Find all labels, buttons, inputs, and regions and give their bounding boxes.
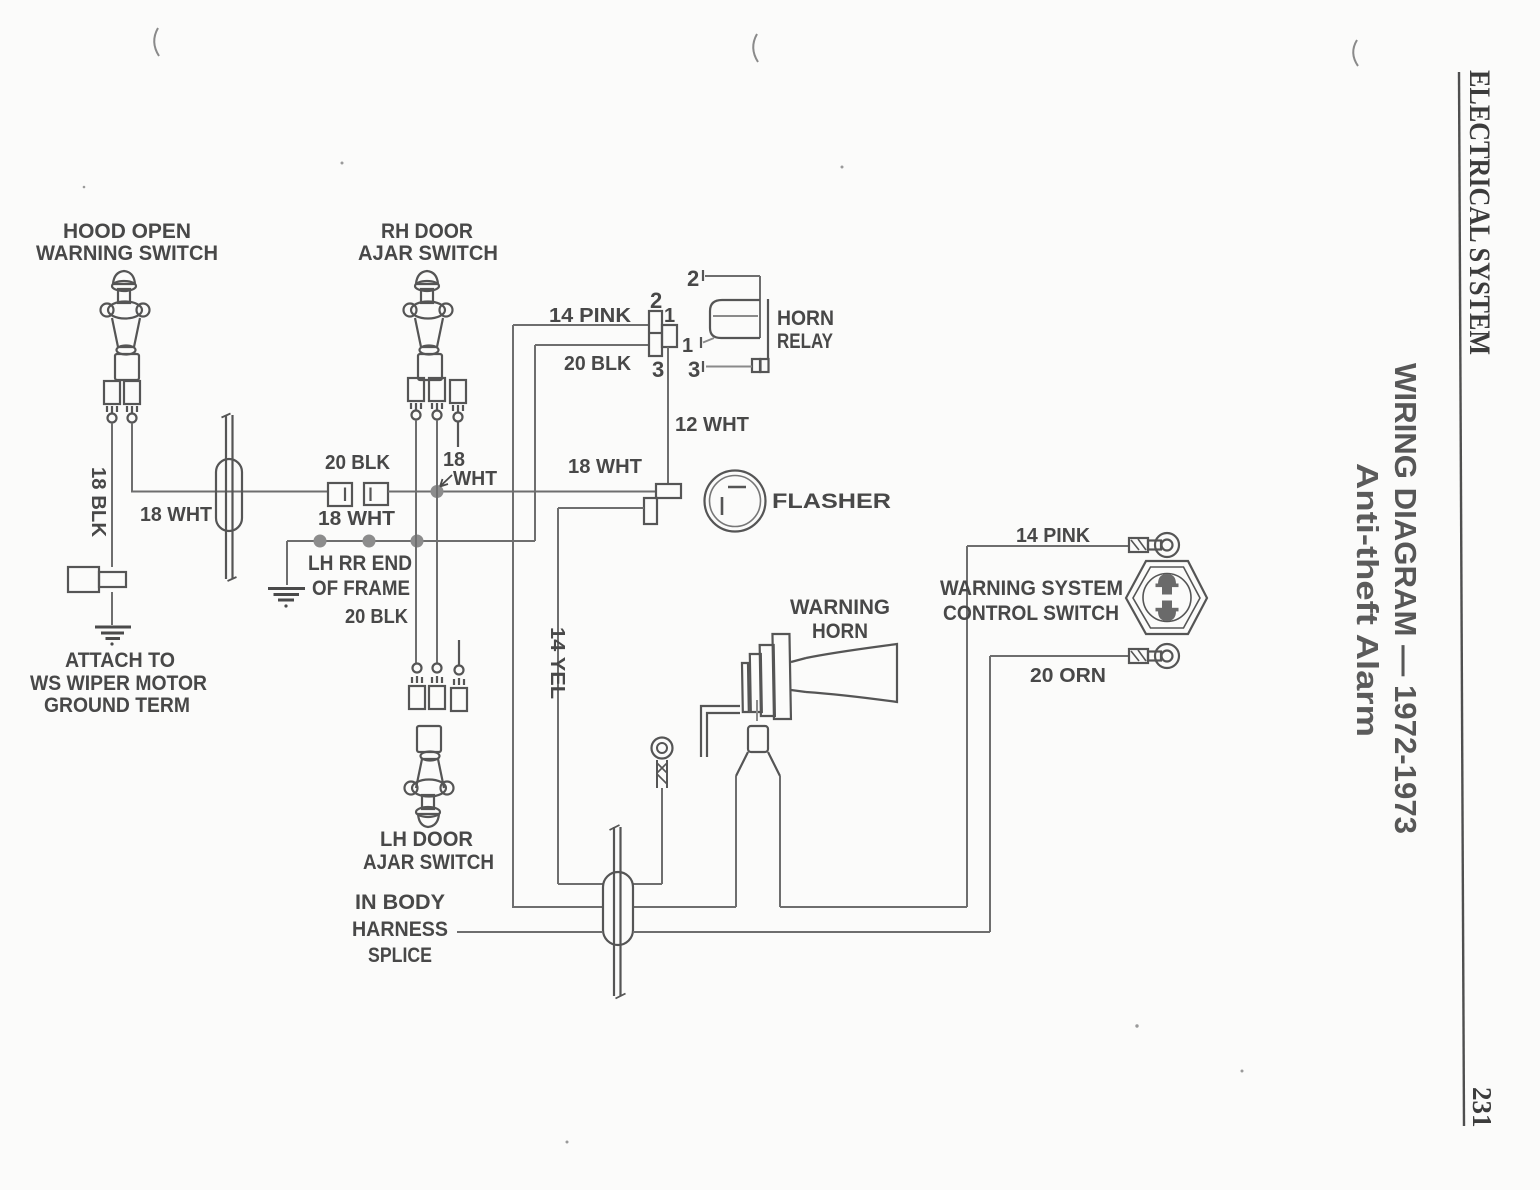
svg-text:20 BLK: 20 BLK: [564, 353, 632, 375]
wire 18 BLK hood switch to wiper ground: [111, 423, 113, 567]
scan artifact parenthesis 1: [154, 28, 159, 56]
terminal connector RH door pin 3 (18 WHT stub): [450, 380, 466, 447]
svg-text:18 WHT: 18 WHT: [318, 508, 395, 530]
svg-text:SPLICE: SPLICE: [368, 944, 432, 967]
svg-text:WARNING SYSTEM: WARNING SYSTEM: [940, 577, 1123, 600]
terminal connector LH door pin 3 with stub: [451, 640, 467, 711]
svg-text:AJAR SWITCH: AJAR SWITCH: [358, 242, 498, 265]
svg-text:HARNESS: HARNESS: [352, 918, 448, 941]
RH door ajar switch S2: [404, 271, 453, 380]
junction node 18 WHT: [431, 485, 444, 498]
svg-text:14 PINK: 14 PINK: [549, 305, 632, 327]
bullet connector half A (20 BLK): [328, 483, 352, 506]
svg-text:WHT: WHT: [453, 468, 497, 490]
svg-text:1: 1: [682, 335, 693, 357]
wire 14 YEL branch to flasher: [558, 508, 644, 884]
scan artifact parenthesis 3: [1353, 40, 1358, 66]
scan specks: [83, 162, 1244, 1144]
horn relay U1: [701, 270, 769, 372]
flasher feed connector: [644, 484, 681, 524]
wire RH door pin2 to LH door pin2: [436, 420, 438, 663]
wire 18 WHT connector to flasher feed: [388, 491, 656, 493]
warning system control switch ring terminal 14 PINK: [1129, 533, 1179, 557]
svg-text:HORN: HORN: [812, 620, 868, 643]
connector ATTACH TO WS WIPER MOTOR: [68, 567, 126, 592]
wire warning horn left leg to splice: [633, 776, 736, 907]
svg-text:LH DOOR: LH DOOR: [380, 828, 473, 851]
wire warning horn right leg to control switch 14 PINK: [780, 546, 1129, 907]
svg-text:FLASHER: FLASHER: [772, 490, 891, 513]
svg-text:20 BLK: 20 BLK: [345, 606, 409, 628]
LH door ajar switch S4 (inverted): [405, 726, 454, 827]
svg-text:LH RR END: LH RR END: [308, 552, 412, 575]
svg-text:HOOD OPEN: HOOD OPEN: [63, 220, 191, 243]
svg-text:3: 3: [688, 357, 700, 382]
junction node at RH door wire: [411, 535, 424, 548]
svg-text:2: 2: [687, 266, 699, 291]
svg-text:20 BLK: 20 BLK: [325, 452, 391, 474]
svg-text:231: 231: [1467, 1087, 1497, 1128]
ring terminal (horn ground eyelet): [652, 738, 673, 789]
terminal connector RH door pin 1: [408, 378, 424, 420]
svg-text:WARNING SWITCH: WARNING SWITCH: [36, 242, 218, 265]
wire 18 WHT hood switch to bulkhead: [132, 423, 328, 492]
svg-text:WARNING: WARNING: [790, 596, 890, 619]
svg-text:18 BLK: 18 BLK: [87, 467, 109, 538]
svg-text:ELECTRICAL SYSTEM: ELECTRICAL SYSTEM: [1463, 70, 1496, 355]
wire RH door pin1 to LH door pin1: [415, 420, 417, 663]
svg-text:OF FRAME: OF FRAME: [312, 577, 410, 600]
svg-text:20 ORN: 20 ORN: [1030, 665, 1106, 687]
svg-text:Anti-theft Alarm: Anti-theft Alarm: [1350, 463, 1385, 737]
svg-text:RELAY: RELAY: [777, 330, 833, 353]
leader arrow for 18 WHT callout: [440, 475, 452, 487]
flasher FL1: [705, 471, 766, 532]
ground wire 18 WHT at LH RR end of frame: [287, 540, 535, 542]
warning system control switch S3 (lock cylinder): [1126, 561, 1207, 634]
svg-text:AJAR SWITCH: AJAR SWITCH: [363, 851, 494, 874]
ground symbol (frame ground): [268, 589, 305, 608]
svg-text:12 WHT: 12 WHT: [675, 414, 749, 436]
svg-text:1: 1: [664, 305, 675, 327]
svg-text:GROUND TERM: GROUND TERM: [44, 694, 190, 717]
svg-text:WIRING DIAGRAM — 1972-1973: WIRING DIAGRAM — 1972-1973: [1388, 363, 1423, 834]
svg-text:IN BODY: IN BODY: [355, 891, 445, 914]
splice node 1: [314, 535, 327, 548]
svg-text:14 PINK: 14 PINK: [1016, 525, 1091, 547]
ground symbol (wiper motor ground): [95, 627, 131, 646]
scan artifact parenthesis 2: [753, 34, 758, 62]
svg-text:HORN: HORN: [777, 307, 834, 330]
wire 14 PINK relay to control switch branch: [513, 325, 649, 907]
bulkhead connector (dash panel grommet): [216, 414, 242, 582]
hood open warning switch S1: [101, 271, 150, 380]
terminal connector LH door pin 1: [409, 664, 425, 710]
svg-text:18 WHT: 18 WHT: [568, 456, 642, 478]
warning system control switch ring terminal 20 ORN: [1129, 644, 1179, 668]
wire 20 BLK relay to frame ground: [535, 345, 649, 541]
wire to ground term: [111, 592, 113, 625]
wire 12 WHT relay to flasher: [667, 347, 669, 484]
warning horn H1: [701, 634, 897, 776]
wire splice label lead and 20 ORN branch: [457, 656, 1129, 932]
svg-text:18 WHT: 18 WHT: [140, 504, 212, 526]
ground stem LH RR end of frame: [286, 541, 288, 585]
svg-text:2: 2: [650, 288, 662, 313]
svg-text:RH DOOR: RH DOOR: [381, 220, 473, 243]
svg-text:14 YEL: 14 YEL: [546, 627, 568, 699]
terminal connector LH door pin 2: [429, 664, 445, 710]
terminal connector on hood switch wire 2: [124, 381, 140, 423]
wire eyelet to splice: [633, 788, 662, 884]
terminal connector RH door pin 2: [429, 378, 445, 420]
svg-text:CONTROL SWITCH: CONTROL SWITCH: [943, 602, 1119, 625]
bullet connector half B (20 BLK): [364, 483, 388, 505]
horn relay connector block: [649, 311, 677, 356]
svg-text:WS WIPER MOTOR: WS WIPER MOTOR: [30, 672, 207, 695]
splice node 2: [363, 535, 376, 548]
svg-text:ATTACH TO: ATTACH TO: [65, 649, 175, 672]
in body harness splice: [603, 825, 633, 999]
svg-text:3: 3: [652, 357, 664, 382]
sidebar rule: [1459, 72, 1464, 1126]
terminal connector on hood switch wire 1: [104, 381, 120, 423]
